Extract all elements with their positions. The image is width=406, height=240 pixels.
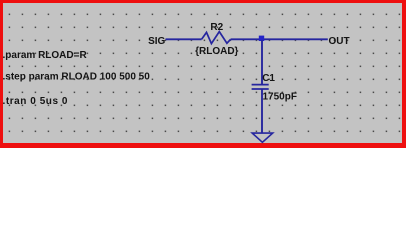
wire C1 to ground [261,89,263,133]
junction node [259,36,264,41]
svg-text:C1: C1 [262,73,275,84]
svg-text:{RLOAD}: {RLOAD} [195,46,238,57]
capacitor C1 [252,85,269,89]
wire junction to C1 [261,40,263,84]
value 1750pF [263,91,297,102]
ground [252,133,273,142]
spice directive .step [3,71,151,82]
svg-text:.param RLOAD=R: .param RLOAD=R [3,50,88,61]
svg-text:SIG: SIG [148,36,165,47]
svg-text:OUT: OUT [329,36,350,47]
svg-text:R2: R2 [210,22,223,33]
spice directive .param [3,50,88,61]
resistor R2 [202,32,231,44]
wire SIG to R2 [166,38,202,40]
svg-text:.tran 0 5us 0: .tran 0 5us 0 [3,96,69,107]
wire R2 to OUT [231,38,328,40]
svg-text:1750pF: 1750pF [263,91,297,102]
label C1 [262,73,275,84]
node SIG [148,36,165,47]
spice directive .tran [3,96,69,107]
value {RLOAD} [195,46,238,57]
svg-text:.step param RLOAD 100 500 50: .step param RLOAD 100 500 50 [3,71,151,82]
node OUT [329,36,350,47]
label R2 [210,22,223,33]
